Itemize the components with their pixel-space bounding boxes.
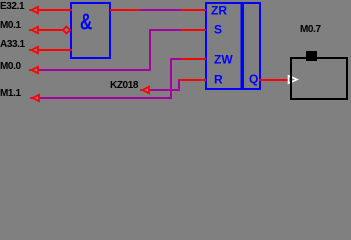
svg-text:M1.1: M1.1: [0, 88, 21, 99]
svg-text:A33.1: A33.1: [0, 39, 26, 50]
svg-text:KZ018: KZ018: [110, 80, 139, 91]
svg-text:M0.0: M0.0: [0, 61, 21, 72]
svg-text:Q: Q: [249, 72, 258, 86]
svg-text:ZW: ZW: [214, 53, 233, 67]
svg-text:&: &: [80, 10, 93, 35]
svg-text:S: S: [214, 23, 222, 37]
svg-text:M0.1: M0.1: [0, 20, 21, 31]
svg-text:E32.1: E32.1: [0, 1, 25, 12]
svg-text:R: R: [214, 73, 223, 87]
svg-text:ZR: ZR: [211, 4, 227, 18]
svg-text:M0.7: M0.7: [300, 24, 321, 35]
